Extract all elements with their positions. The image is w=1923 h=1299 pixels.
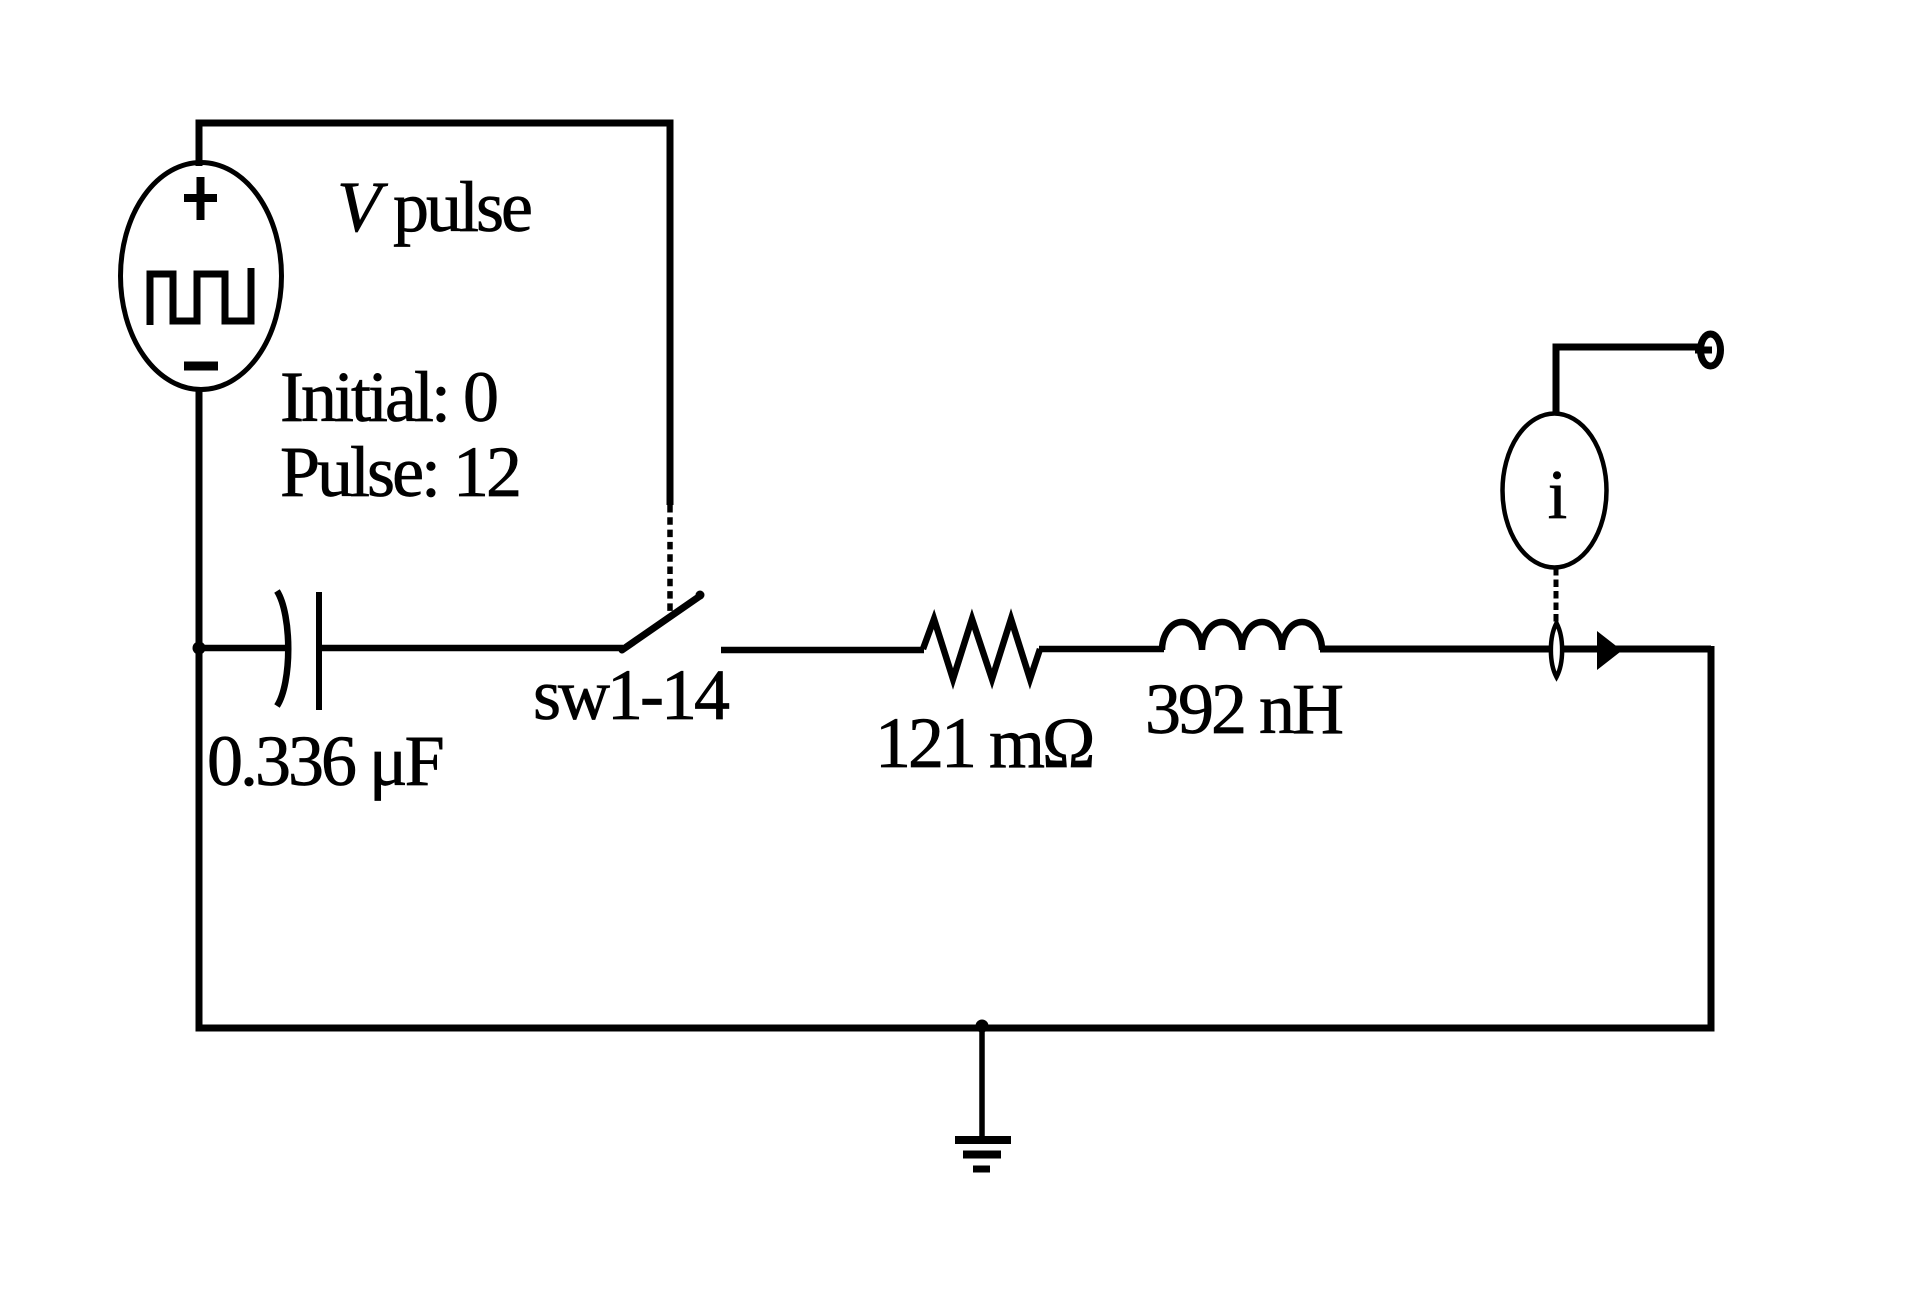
svg-text:392 nH: 392 nH [1145, 669, 1342, 749]
svg-text:V pulse: V pulse [337, 167, 531, 247]
svg-text:Pulse: 12: Pulse: 12 [280, 432, 519, 512]
svg-text:121 mΩ: 121 mΩ [875, 703, 1093, 783]
svg-text:Initial: 0: Initial: 0 [280, 357, 497, 437]
svg-text:i: i [1548, 457, 1567, 534]
svg-text:0.336 μF: 0.336 μF [207, 721, 443, 801]
svg-text:sw1-14: sw1-14 [533, 655, 729, 735]
